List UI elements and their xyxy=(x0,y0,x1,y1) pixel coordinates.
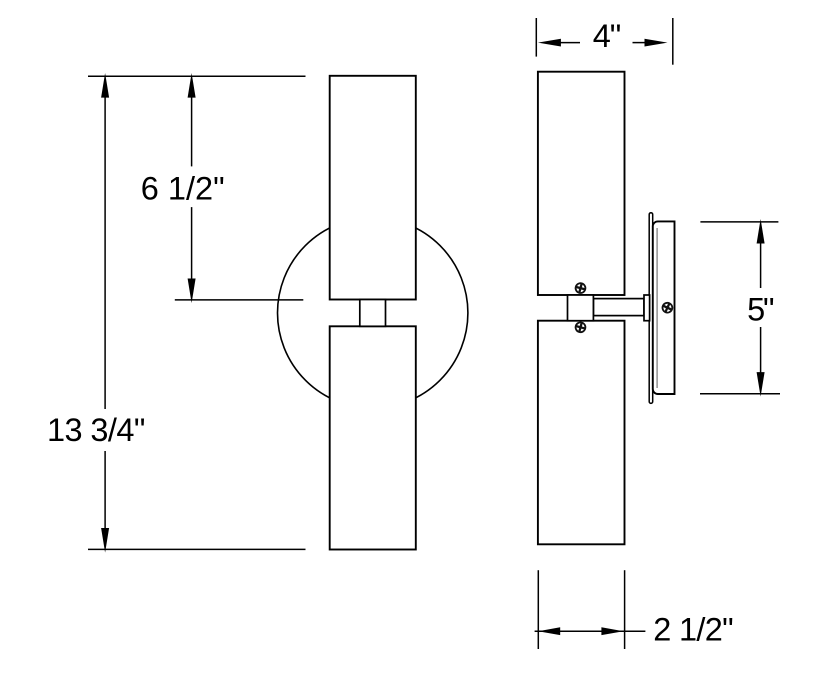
mounting arm flange (side view) xyxy=(644,295,650,321)
thin mounting plate (side view) xyxy=(649,213,653,404)
svg-text:13 3/4": 13 3/4" xyxy=(47,412,146,448)
svg-text:2 1/2": 2 1/2" xyxy=(653,612,734,648)
extension line 4 inch right xyxy=(672,18,674,65)
bottom cylinder (side view) xyxy=(538,321,625,545)
svg-text:4": 4" xyxy=(593,18,622,54)
extension line 2 1/2 inch left xyxy=(537,570,539,649)
extension line bottom left (overall height) xyxy=(88,548,306,550)
extension line top left (overall height) xyxy=(88,75,306,77)
dimension line 6 1/2 inch xyxy=(188,73,196,303)
top cylinder (side view) xyxy=(538,72,625,295)
dimension line 4 inch xyxy=(538,39,668,47)
arm hub block (side view) xyxy=(568,295,594,321)
extension line 2 1/2 inch right xyxy=(624,570,626,649)
svg-text:5": 5" xyxy=(747,292,775,328)
dimension line 2 1/2 inch xyxy=(535,627,646,635)
bottom cylinder (front view) xyxy=(330,326,416,549)
wall plate (side view) xyxy=(653,221,675,394)
extension line mid left (6 1/2 bottom) xyxy=(175,299,303,301)
top cylinder (front view) xyxy=(330,76,416,300)
extension line 4 inch left xyxy=(535,18,537,57)
center arm stem (front view) xyxy=(360,300,386,327)
screw on wall plate xyxy=(661,301,674,314)
wall plate face tangent line (side view) xyxy=(656,228,658,388)
backplate circle (front view) xyxy=(278,218,468,408)
screw above hub (side view) xyxy=(574,282,586,294)
extension line 5 inch bottom xyxy=(700,393,780,395)
svg-text:6 1/2": 6 1/2" xyxy=(141,170,225,206)
dimension line 13 3/4 inch xyxy=(101,73,109,553)
extension line 5 inch top xyxy=(700,221,778,223)
mounting arm bar (side view) xyxy=(593,299,644,316)
dimension line 5 inch xyxy=(757,219,765,397)
screw below hub (side view) xyxy=(574,321,586,333)
